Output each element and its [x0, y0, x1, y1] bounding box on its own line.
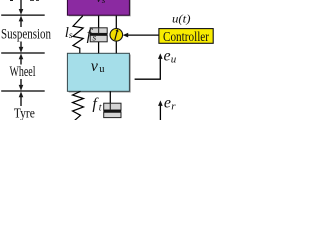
svg-text:s: s — [93, 34, 97, 44]
svg-text:e: e — [164, 47, 171, 64]
svg-text:Controller: Controller — [163, 29, 210, 44]
svg-text:e: e — [164, 94, 171, 111]
svg-text:s: s — [69, 31, 73, 41]
svg-text:Tyre: Tyre — [14, 106, 35, 121]
svg-text:u(t): u(t) — [172, 11, 191, 25]
svg-text:u: u — [171, 54, 177, 66]
svg-text:vs: vs — [96, 0, 106, 5]
svg-text:v: v — [91, 58, 99, 75]
svg-text:r: r — [171, 100, 176, 112]
svg-text:t: t — [99, 102, 102, 113]
svg-text:Wheel: Wheel — [10, 64, 36, 80]
svg-text:Suspension: Suspension — [1, 27, 52, 43]
svg-text:u: u — [99, 64, 105, 75]
